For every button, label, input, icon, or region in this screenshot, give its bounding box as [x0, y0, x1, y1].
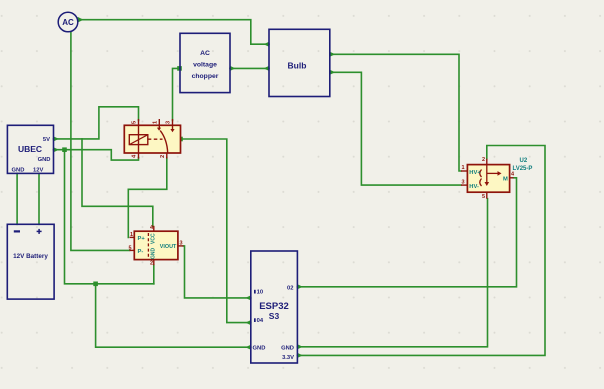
- voltage transducer U2 LV25-P: [461, 157, 532, 200]
- svg-text:S3: S3: [269, 311, 280, 321]
- relay pin stub top middle: [158, 119, 160, 128]
- svg-text:5V: 5V: [43, 137, 50, 143]
- svg-text:2: 2: [160, 155, 166, 158]
- node: chopper right pin: [230, 66, 235, 71]
- block ESP32 S3 U3: [251, 251, 298, 363]
- svg-text:3: 3: [462, 180, 465, 186]
- wire: GND rail down to sensor GND: [65, 150, 154, 284]
- relay coil pin line: [138, 119, 140, 159]
- svg-text:3: 3: [166, 121, 172, 124]
- block Bulb: [269, 29, 330, 96]
- svg-text:AC: AC: [62, 18, 74, 27]
- svg-text:10: 10: [257, 290, 263, 296]
- wire: Bulb to LV25 HV-: [330, 72, 461, 185]
- chopper body: [180, 33, 230, 92]
- wire: AC source top to corner: [78, 20, 270, 45]
- ESP32 body: [251, 251, 298, 363]
- svg-text:chopper: chopper: [192, 73, 219, 80]
- UBEC body: [7, 125, 53, 173]
- wire: ESP32 IO2 to LV25 M: [297, 178, 516, 287]
- svg-text:12V Battery: 12V Battery: [13, 253, 48, 260]
- current sensor U1: [129, 225, 184, 267]
- wire: GND rail branch to ESP32 GND: [96, 284, 251, 347]
- relay K1: [124, 119, 180, 159]
- node: Bulb left pin 1: [264, 42, 269, 47]
- svg-text:UBEC: UBEC: [18, 144, 42, 154]
- svg-text:VCC: VCC: [151, 233, 157, 244]
- sensor pin stub VCC: [153, 226, 155, 231]
- wire: ESP32 GND to LV25 minus: [297, 199, 487, 347]
- wire: sensor VIOUT to ESP32 IO10: [184, 246, 251, 298]
- node: ESP32 IO10 pin: [245, 295, 250, 300]
- svg-text:2: 2: [482, 157, 485, 163]
- svg-text:GND: GND: [253, 346, 266, 352]
- U2 body: [467, 165, 509, 193]
- sensor internal divider: [147, 233, 149, 258]
- svg-text:GND: GND: [281, 346, 294, 352]
- wire: AC source bottom to sensor P-: [71, 32, 130, 251]
- node: ESP32 IO2 pin: [297, 284, 302, 289]
- AC source V1: [58, 12, 78, 32]
- U2 pin stub M: [510, 177, 514, 179]
- wire: UBEC 5V to riser: [54, 107, 139, 139]
- wire: UBEC 12V to battery plus: [38, 173, 40, 224]
- svg-text:P+: P+: [138, 236, 146, 242]
- svg-text:04: 04: [257, 318, 264, 324]
- svg-text:GND: GND: [12, 168, 25, 174]
- wire: relay NO contact to sensor P+: [128, 158, 167, 238]
- relay pin stub top right: [172, 119, 174, 130]
- junction: GND rail tee at sensor GND line: [93, 282, 98, 287]
- node: Bulb right pin 1: [330, 52, 335, 57]
- node: ESP32 GND right pin: [297, 344, 302, 349]
- svg-text:HV-: HV-: [469, 184, 479, 190]
- U2 pin stub minus: [486, 192, 488, 199]
- block AC voltage chopper: [180, 33, 230, 92]
- svg-text:voltage: voltage: [193, 62, 217, 69]
- wire: ESP32 3.3V to LV25 plus: [297, 146, 545, 356]
- svg-text:P-: P-: [138, 249, 144, 255]
- block 12V Battery BT1: [7, 224, 54, 299]
- ESP32 pin label IO4: [254, 318, 256, 322]
- U2 pin stub HV-: [461, 184, 467, 186]
- svg-text:12V: 12V: [33, 168, 43, 174]
- svg-text:VIOUT: VIOUT: [160, 244, 177, 250]
- node: ESP32 IO4 pin: [245, 320, 250, 325]
- svg-text:GND: GND: [151, 248, 157, 260]
- sensor body: [134, 231, 178, 259]
- svg-text:5: 5: [482, 194, 485, 200]
- wire: sensor GND pin drop: [153, 265, 155, 284]
- svg-text:5: 5: [129, 246, 132, 252]
- svg-text:GND: GND: [38, 157, 51, 163]
- wire: chopper input down to relay contact: [173, 68, 180, 120]
- junction: relay common pin: [178, 137, 183, 142]
- node: Bulb left pin 2: [264, 66, 269, 71]
- node: ESP32 3.3V pin: [297, 353, 302, 358]
- block UBEC: [7, 125, 53, 173]
- relay pin stub bottom middle: [166, 153, 168, 159]
- node: ESP32 GND left pin: [245, 345, 250, 350]
- svg-text:U2: U2: [520, 158, 528, 164]
- svg-text:AC: AC: [200, 50, 210, 57]
- svg-text:1: 1: [152, 121, 158, 124]
- svg-text:M: M: [503, 176, 508, 182]
- sensor pin stub P-: [130, 249, 135, 251]
- wire: UBEC GND to relay coil-: [54, 150, 139, 160]
- wire: UBEC GND to battery minus: [16, 173, 18, 224]
- node: Bulb right pin 2: [330, 70, 335, 75]
- svg-text:3.3V: 3.3V: [282, 355, 294, 361]
- svg-text:2: 2: [150, 261, 153, 267]
- wire: Bulb to LV25 HV+: [330, 54, 461, 171]
- battery plus terminal mark: [37, 230, 42, 232]
- junction: chopper input pin: [177, 66, 182, 71]
- svg-text:LV25-P: LV25-P: [513, 166, 533, 172]
- svg-text:HV+: HV+: [469, 170, 481, 176]
- svg-text:1: 1: [462, 165, 465, 171]
- svg-text:5: 5: [132, 121, 138, 124]
- U2 pin stub plus: [486, 159, 488, 165]
- ESP32 pin label IO10: [254, 290, 256, 294]
- wire: relay common to ESP32 IO4: [181, 139, 251, 323]
- svg-text:02: 02: [287, 286, 293, 292]
- junction: UBEC GND rail tee: [62, 147, 67, 152]
- relay coil: [129, 135, 148, 145]
- wire: 5V branch down to sensor VCC: [82, 139, 153, 226]
- node: UBEC GND right pin: [54, 147, 59, 152]
- svg-text:Bulb: Bulb: [288, 61, 307, 71]
- U2 pin stub HV+: [461, 170, 467, 172]
- relay body: [124, 125, 180, 153]
- svg-text:1: 1: [130, 232, 133, 238]
- battery minus terminal mark: [14, 230, 20, 232]
- sensor pin stub GND: [153, 260, 155, 266]
- battery body: [7, 224, 54, 299]
- relay blade: [160, 131, 168, 153]
- sensor pin stub P+: [130, 236, 135, 238]
- U2 internal arrows: [480, 170, 482, 187]
- wire: chopper output to Bulb: [230, 67, 269, 69]
- Bulb body: [269, 29, 330, 96]
- svg-text:3: 3: [180, 241, 183, 247]
- wire entry arrow at AC source output: [78, 17, 84, 23]
- node: UBEC 5V pin: [54, 136, 59, 141]
- sensor pin stub VIOUT: [178, 245, 184, 247]
- relay dashed link: [148, 138, 163, 140]
